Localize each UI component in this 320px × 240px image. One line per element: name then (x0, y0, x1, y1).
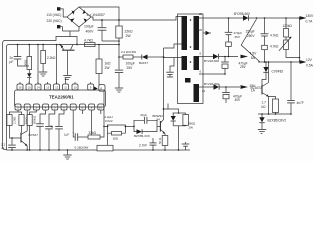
svg-text:4.7kΩ: 4.7kΩ (270, 33, 279, 37)
svg-text:2W: 2W (105, 66, 111, 70)
wire cap bottom to startup node (102, 40, 119, 42)
wire bridge bottom (63, 27, 80, 31)
cap on 130V rail (228, 18, 230, 32)
svg-text:2.2kΩ: 2.2kΩ (47, 56, 56, 60)
ground (258, 129, 266, 131)
svg-text:6: 6 (200, 70, 202, 74)
svg-text:56kΩ: 56kΩ (24, 117, 28, 124)
svg-text:25V: 25V (127, 66, 134, 70)
wire rail to pad (56, 45, 58, 85)
svg-text:10: 10 (99, 106, 102, 110)
pin10 stub (100, 110, 102, 114)
zener top right (265, 62, 267, 67)
svg-text:CV9F82: CV9F82 (272, 69, 284, 73)
svg-text:4 x 1N4007: 4 x 1N4007 (87, 13, 105, 17)
svg-text:BZX85-3V9: BZX85-3V9 (134, 134, 150, 138)
bridge diode 2 (82, 10, 85, 14)
svg-text:25V: 25V (235, 35, 240, 39)
resistor 2.2k (41, 51, 46, 64)
node dots on rail (17, 44, 19, 46)
svg-text:BY218-300: BY218-300 (204, 82, 219, 86)
svg-text:8: 8 (200, 52, 202, 56)
wire top terminal to bridge (61, 9, 67, 17)
svg-text:µF: µF (50, 124, 54, 128)
transistor PNP (62, 49, 75, 51)
switch line vertical (163, 48, 165, 109)
cap 47nF right (290, 62, 292, 100)
secondary 29V wire (199, 86, 214, 88)
base drive loop L / 18R (108, 125, 126, 126)
transistor BDW93-94 (159, 121, 161, 132)
svg-text:2W: 2W (126, 34, 132, 38)
cap-zener loop 47uF / BZX85-3V9 (134, 120, 144, 126)
svg-text:2.7nF: 2.7nF (139, 143, 147, 147)
svg-text:250V: 250V (247, 34, 255, 38)
svg-text:7.5V: 7.5V (250, 51, 258, 55)
svg-text:13: 13 (46, 86, 49, 90)
node junction rail (118, 44, 120, 46)
transformer secondary top bar (194, 16, 200, 50)
resistor on pin chain (27, 57, 32, 70)
capacitor 150uF 250V (264, 18, 266, 33)
svg-text:10: 10 (74, 86, 77, 90)
svg-text:110 (VAC): 110 (VAC) (47, 13, 62, 17)
svg-text:11: 11 (64, 86, 67, 90)
resistor 22k 2W startup (116, 26, 122, 38)
input terminal 220VAC (57, 25, 60, 28)
diode BA157 (142, 55, 148, 60)
pin6 cap (59, 110, 64, 126)
svg-text:18Ω: 18Ω (113, 137, 119, 141)
svg-text:nF: nF (1, 146, 5, 150)
snubber cap to ground (170, 58, 174, 72)
cap 2.2nF bottom left (11, 138, 13, 145)
pin stub with mark (203, 32, 211, 34)
cap at rail end (185, 142, 187, 144)
feedback divider 120k (285, 18, 287, 29)
resistor 4.7k on rail (85, 43, 96, 47)
wire bottom terminal to bridge (61, 27, 63, 31)
svg-text:BY218-600: BY218-600 (204, 59, 219, 63)
svg-text:40V: 40V (235, 98, 242, 102)
transistor BC547A right (261, 85, 263, 95)
output arrow 7.5V (241, 55, 249, 59)
ground for transistor base (67, 50, 69, 75)
input terminal 110VAC (57, 7, 60, 10)
VCC rail left (7, 45, 120, 151)
node junction cap (101, 19, 103, 21)
svg-text:1: 1 (17, 106, 19, 110)
wire to primary pin (164, 44, 182, 48)
svg-text:BC547A: BC547A (251, 86, 264, 90)
svg-text:2: 2 (26, 106, 28, 110)
svg-text:4n7F: 4n7F (297, 101, 304, 105)
svg-text:22kΩ: 22kΩ (125, 29, 133, 33)
svg-text:120kΩ: 120kΩ (283, 24, 293, 28)
cap 470uF 40V (225, 87, 227, 92)
svg-text:47µF: 47µF (140, 113, 147, 117)
svg-text:BA157: BA157 (139, 61, 148, 65)
svg-text:15: 15 (28, 86, 31, 90)
svg-text:16: 16 (19, 86, 22, 90)
trimmer 4.7k (285, 37, 287, 40)
small diode (27, 73, 31, 77)
svg-text:4.7kΩ: 4.7kΩ (270, 45, 279, 49)
svg-text:56 Ω: 56 Ω (158, 138, 162, 144)
bridge rectifier diamond (67, 7, 91, 27)
svg-text:560Ω: 560Ω (23, 60, 27, 66)
svg-text:130V: 130V (306, 14, 315, 18)
svg-text:0.5A: 0.5A (306, 64, 314, 68)
svg-text:BY258-600: BY258-600 (234, 12, 250, 16)
svg-text:33kΩ: 33kΩ (89, 131, 97, 135)
ground under rail (67, 149, 69, 151)
zener BZX85C8V2 (261, 114, 263, 117)
12V output wire (258, 61, 300, 63)
secondary 7.5V wire (199, 56, 213, 58)
svg-text:100µF: 100µF (84, 25, 94, 29)
diagonal feedback wires (241, 19, 260, 62)
capacitor 2.2nF on rail (17, 45, 19, 57)
svg-text:20: 20 (199, 28, 203, 32)
svg-text:600kΩ: 600kΩ (33, 116, 37, 124)
emitter resistor 56R (162, 136, 168, 146)
pin4 cap (40, 110, 46, 123)
svg-text:25V: 25V (240, 65, 247, 69)
output arrow 130V (300, 16, 307, 20)
transformer secondary bottom bar (194, 84, 200, 102)
return wire (199, 73, 225, 75)
snubber diode-resistor combo (163, 108, 165, 110)
svg-text:12V: 12V (306, 58, 313, 62)
svg-text:2.2 Ω/0.5W: 2.2 Ω/0.5W (121, 50, 136, 54)
IC top pin numbers (19, 86, 92, 90)
wire pin to rail (37, 45, 39, 85)
svg-text:4.7kΩ: 4.7kΩ (84, 39, 93, 43)
svg-text:25: 25 (199, 12, 203, 16)
core polarity dots (190, 19, 192, 21)
pin7 wire and 1uF cap (73, 110, 75, 137)
transformer primary bar (182, 16, 188, 50)
svg-text:9: 9 (91, 106, 93, 110)
IC bottom pin numbers (17, 106, 102, 110)
cap 470uF 25V (224, 57, 226, 62)
emitter resistor 1.7k (269, 97, 276, 100)
wire HT rail to transformer (119, 17, 182, 21)
bridge diode 1 (72, 11, 75, 15)
bridge diode 4 (71, 18, 75, 22)
svg-text:94: 94 (157, 117, 161, 121)
svg-text:9: 9 (90, 86, 92, 90)
svg-text:µF: µF (10, 60, 14, 64)
IC top pin stubs (20, 79, 91, 84)
diode BY258-600 top (243, 15, 248, 20)
pin9 stub to 33k (91, 110, 93, 135)
IC TEA2260/61 body (15, 90, 106, 107)
output arrow 29V (241, 85, 249, 89)
svg-text:2.2kΩ: 2.2kΩ (12, 117, 16, 124)
resistor 1k 2W (98, 45, 100, 60)
svg-text:14: 14 (37, 86, 40, 90)
IC bottom pin pads (15, 104, 104, 110)
svg-text:TEA2260/61: TEA2260/61 (49, 94, 74, 99)
svg-text:400V: 400V (86, 30, 95, 34)
IC top pin pads (17, 84, 94, 90)
wire bridge right vertex to node (91, 17, 119, 20)
svg-text:3: 3 (36, 106, 38, 110)
svg-text:kΩ: kΩ (262, 105, 267, 109)
pin1 wire to resistor A (10, 110, 19, 115)
pin5 cap (49, 110, 55, 126)
connector pad (93, 86, 97, 91)
svg-text:+: + (73, 130, 75, 134)
svg-text:0.18Ω/3W: 0.18Ω/3W (75, 145, 89, 149)
vcc filter cap 100uF 25V (118, 45, 120, 70)
svg-text:24: 24 (202, 89, 206, 93)
transformer outline box (178, 14, 204, 104)
pin3 resistor C (30, 110, 37, 115)
wire 130V node down (299, 18, 301, 62)
bottom rail (7, 149, 191, 151)
svg-text:1.7: 1.7 (262, 101, 267, 105)
ground (115, 87, 123, 89)
bridge diode 3 (84, 18, 87, 22)
node junction at 119,20 (118, 19, 120, 21)
resistor A (7, 115, 12, 126)
svg-text:220 (VAC): 220 (VAC) (47, 19, 62, 23)
wire bridge bottom drop (69, 31, 71, 37)
secondary 130V wire (199, 17, 243, 19)
resistor 33k (88, 135, 100, 139)
svg-text:BZX85/C8V2: BZX85/C8V2 (268, 119, 287, 123)
svg-text:6: 6 (63, 106, 65, 110)
pin2 resistor B (18, 112, 22, 115)
svg-text:12: 12 (55, 86, 58, 90)
svg-text:2W: 2W (189, 125, 194, 129)
driver resistor 2.2ohm (119, 56, 123, 58)
wire bridge + top rail (79, 7, 119, 26)
svg-text:4: 4 (45, 106, 47, 110)
svg-text:0.7A: 0.7A (306, 20, 314, 24)
outer left loop wire (3, 37, 77, 150)
svg-text:5: 5 (54, 106, 56, 110)
bottom right node wire (258, 113, 291, 115)
transistor BC547 (20, 133, 22, 143)
ground (39, 71, 47, 73)
svg-text:0.022: 0.022 (105, 119, 113, 123)
svg-text:BC547: BC547 (29, 133, 39, 137)
sense resistor 0.18ohm (97, 145, 113, 151)
transformer small bar (185, 78, 191, 83)
svg-text:7: 7 (72, 106, 74, 110)
svg-text:1µF: 1µF (64, 132, 69, 136)
aux stub (164, 57, 182, 59)
capacitor 100uF 400V (101, 20, 103, 27)
svg-text:8: 8 (82, 106, 84, 110)
